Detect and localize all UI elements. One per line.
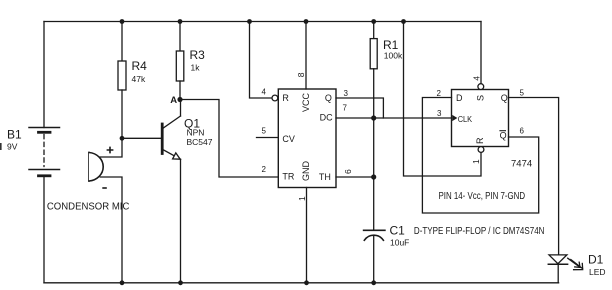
pin 1 GND wire [306, 188, 308, 283]
svg-text:4: 4 [471, 76, 481, 81]
svg-text:D-TYPE FLIP-FLOP / IC DM74S74: D-TYPE FLIP-FLOP / IC DM74S74N [414, 225, 545, 237]
svg-text:8: 8 [296, 72, 306, 77]
svg-text:R: R [475, 137, 485, 144]
pin 5 CV stub [257, 137, 279, 139]
pin 3 Q wire [336, 98, 383, 118]
svg-text:TH: TH [319, 172, 331, 182]
mic plus sign [102, 147, 113, 188]
svg-text:LED: LED [589, 267, 606, 277]
svg-text:5: 5 [262, 127, 267, 136]
junction R1 / DC wire [371, 115, 376, 120]
svg-text:S: S [476, 95, 486, 101]
junction mic minus / bottom rail [120, 280, 125, 285]
svg-text:1k: 1k [191, 62, 201, 72]
svg-text:GND: GND [301, 161, 311, 182]
LED D1 [549, 255, 567, 264]
svg-text:TR: TR [282, 172, 294, 182]
svg-text:9V: 9V [7, 142, 18, 152]
battery B1 [43, 22, 45, 128]
wire bottom rail [44, 282, 559, 284]
svg-text:DC: DC [320, 113, 333, 123]
svg-text:Q: Q [501, 93, 508, 103]
svg-text:2: 2 [437, 89, 442, 98]
pin 2 D wire toggle loop from Q-bar [422, 98, 538, 214]
svg-text:CONDENSOR MIC: CONDENSOR MIC [47, 201, 130, 213]
svg-text:R4: R4 [132, 59, 148, 73]
svg-text:7474: 7474 [511, 159, 532, 170]
wire emitter to ground rail [180, 159, 182, 282]
junction VCC / top rail [304, 19, 309, 24]
junction R3 / top rail [178, 19, 183, 24]
pin 1 R wire [478, 147, 484, 153]
svg-text:BC547: BC547 [187, 137, 213, 147]
resistor R3 [179, 22, 181, 52]
svg-text:CV: CV [282, 134, 295, 144]
transistor Q1 [161, 124, 164, 154]
microphone MIC [88, 153, 90, 182]
svg-text:D: D [456, 93, 463, 103]
pin 8 VCC wire [305, 22, 307, 90]
junction mic plus / base [120, 136, 125, 141]
svg-text:B1: B1 [7, 128, 22, 142]
junction emitter / bottom rail [178, 280, 183, 285]
svg-text:3: 3 [344, 89, 349, 98]
wire mic plus to base node [100, 138, 122, 157]
pin 4 S wire [480, 22, 482, 84]
svg-text:1: 1 [471, 159, 481, 164]
svg-text:C1: C1 [390, 224, 406, 238]
svg-text:D1: D1 [588, 253, 604, 267]
555 timer U1 [278, 89, 336, 188]
svg-text:A: A [170, 95, 177, 106]
junction C1 / bottom rail [371, 280, 376, 285]
edge mark [0, 143, 2, 150]
junction pin4 wire / top rail [247, 19, 252, 24]
junction R1 / top rail [371, 19, 376, 24]
node A dot [177, 97, 182, 102]
svg-text:VCC: VCC [301, 92, 311, 112]
svg-text:R3: R3 [190, 48, 206, 62]
svg-text:CLK: CLK [458, 114, 473, 124]
svg-text:3: 3 [437, 109, 442, 118]
pin 4 R wire [250, 22, 273, 99]
svg-text:2: 2 [262, 165, 267, 174]
pin 5 Q wire to LED [509, 98, 559, 255]
junction FF R wire / top rail [401, 19, 406, 24]
wire base [122, 137, 161, 139]
junction GND / bottom rail [304, 280, 309, 285]
wire top rail [44, 21, 481, 23]
svg-text:4: 4 [262, 88, 267, 97]
svg-text:6: 6 [520, 127, 525, 136]
clock chevron pin 3 [452, 115, 457, 121]
mic minus sign [102, 187, 107, 189]
svg-text:47k: 47k [132, 74, 146, 84]
resistor R1 [373, 22, 375, 39]
wire node A to TR pin [180, 100, 278, 178]
svg-text:Q: Q [500, 131, 507, 141]
svg-text:NPN: NPN [187, 128, 205, 138]
svg-text:Q: Q [325, 93, 332, 103]
svg-text:7: 7 [343, 103, 348, 112]
junction TH / C1 [371, 174, 376, 179]
capacitor C1 [373, 177, 375, 230]
resistor R4 [121, 22, 123, 62]
svg-text:6: 6 [343, 169, 353, 174]
pin 7 DC wire to CLK [336, 117, 452, 119]
svg-text:1: 1 [297, 196, 307, 201]
svg-text:100k: 100k [384, 51, 403, 61]
flip-flop U2 7474 [452, 90, 509, 147]
wire mic minus to ground rail [100, 177, 122, 283]
svg-text:PIN 14- Vcc, PIN 7-GND: PIN 14- Vcc, PIN 7-GND [439, 191, 526, 202]
svg-text:R: R [282, 93, 289, 103]
junction R4 / top rail [120, 19, 125, 24]
svg-text:5: 5 [520, 89, 525, 98]
pin 6 TH wire [336, 176, 374, 178]
svg-text:10uF: 10uF [390, 238, 409, 248]
